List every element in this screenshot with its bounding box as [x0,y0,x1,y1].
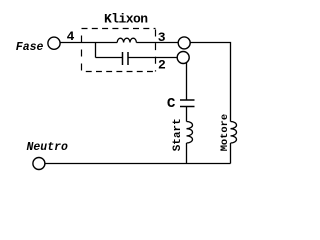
klixon bimetal coil [117,38,136,42]
klixon box right dashed edge [155,30,157,72]
junction drop wire [95,43,97,58]
terminal Neutro [33,158,45,170]
klixon box bottom dashed edge [82,71,156,73]
svg-text:Start: Start [172,118,184,151]
wire junction to contact [96,57,123,59]
svg-text:Klixon: Klixon [104,12,148,27]
terminal Fase [48,37,60,49]
bottom wire neutro rail [45,163,231,165]
terminal 3 circle [178,37,190,49]
klixon contact left plate [122,52,124,65]
svg-text:Neutro: Neutro [27,141,69,154]
wire motore winding to bottom [230,143,232,164]
wire Fase to coil [60,42,117,44]
motore winding coil [231,122,237,144]
svg-text:4: 4 [67,29,75,44]
wire start winding to bottom [186,143,188,164]
svg-text:2: 2 [158,57,166,72]
terminal 2 circle [177,52,189,64]
svg-text:Fase: Fase [16,41,44,54]
klixon dashed enclosure box [82,28,156,30]
wire terminal 2 down to capacitor [186,62,188,100]
klixon box left dashed edge [81,29,83,72]
wire contact to terminal 2 [128,57,177,59]
wire terminal 3 to motore branch [190,43,230,122]
capacitor C top plate [180,99,195,101]
wire coil to terminal 3 [136,42,178,44]
klixon contact right plate [127,52,129,65]
svg-text:Motore: Motore [219,114,231,151]
capacitor C bottom plate [180,106,195,108]
wire capacitor to start winding [186,107,188,122]
svg-text:3: 3 [158,30,166,45]
svg-text:C: C [167,96,176,112]
start winding coil [187,122,193,144]
